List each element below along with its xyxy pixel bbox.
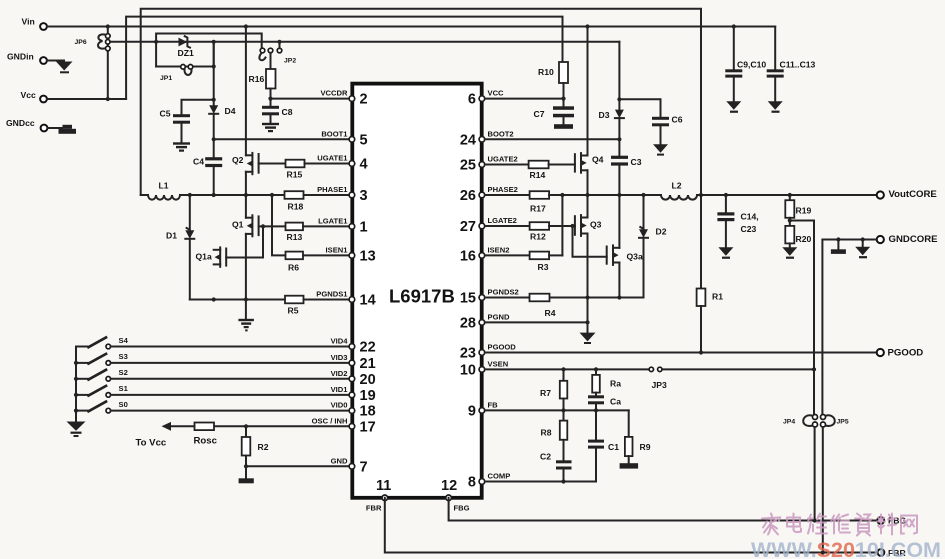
svg-text:L2: L2	[672, 181, 682, 191]
svg-text:24: 24	[460, 132, 476, 148]
terminal Vcc	[21, 90, 47, 102]
pin 20 VID2	[331, 369, 376, 388]
svg-text:7: 7	[360, 459, 368, 475]
svg-text:S2: S2	[119, 368, 128, 377]
svg-text:COMP: COMP	[488, 472, 511, 481]
wire phase1 to R6	[272, 195, 286, 255]
ground GNDCORE tri	[855, 240, 870, 259]
jumper JP5	[821, 415, 849, 428]
svg-text:DZ1: DZ1	[178, 48, 194, 58]
resistor Ra	[592, 369, 621, 395]
junction Vout/R1	[699, 193, 703, 197]
diode D4	[209, 105, 236, 116]
junction phase1/Q2	[244, 193, 248, 197]
svg-text:R5: R5	[288, 306, 299, 316]
junction BOOT2 node	[617, 137, 621, 141]
pin 13 ISEN1	[326, 245, 376, 264]
svg-text:PGNDS2: PGNDS2	[488, 288, 519, 297]
wire PGOOD	[485, 352, 877, 354]
svg-text:C3: C3	[631, 157, 642, 167]
junction FB/Ca/C1	[594, 408, 598, 412]
resistor R3	[485, 252, 563, 272]
pin 4 UGATE1	[317, 154, 367, 173]
ground GNDin	[56, 62, 73, 74]
capacitor Ca	[588, 395, 621, 439]
pin 5 BOOT1	[321, 129, 367, 148]
wire Vout top bus	[141, 9, 701, 289]
junction DZ1 loop bottom	[212, 64, 216, 68]
resistor R9	[625, 410, 651, 463]
svg-text:8: 8	[468, 475, 476, 491]
resistor Rosc	[168, 423, 246, 447]
capacitor C14,C23	[717, 195, 758, 247]
junction R19/R20/JP4	[788, 218, 792, 222]
svg-text:VID3: VID3	[331, 353, 348, 362]
svg-text:GND: GND	[331, 456, 348, 465]
wire VID1	[111, 394, 349, 396]
transistor Q3	[575, 195, 602, 322]
svg-text:5: 5	[360, 132, 368, 148]
svg-text:C1: C1	[608, 442, 619, 452]
svg-text:C4: C4	[193, 157, 204, 167]
junction D3/C6 node	[617, 97, 621, 101]
svg-text:WWW.S2010I.COM: WWW.S2010I.COM	[751, 539, 941, 559]
svg-text:22: 22	[360, 340, 376, 356]
svg-text:Q3: Q3	[590, 220, 602, 230]
transistor Q1a	[196, 247, 227, 266]
switch S4	[76, 336, 129, 349]
wire GND pin7	[246, 465, 349, 467]
svg-text:R8: R8	[541, 428, 552, 438]
ground C7	[554, 124, 573, 129]
svg-text:C23: C23	[741, 224, 757, 234]
capacitor C2	[540, 452, 572, 482]
svg-text:VID2: VID2	[331, 369, 348, 378]
junction C5 tap	[212, 98, 216, 102]
wire DZ1 bypass loop	[156, 34, 262, 67]
resistor R5	[285, 296, 349, 316]
junction switch bus S3	[74, 361, 78, 365]
junction Vout/C14	[724, 193, 728, 197]
svg-text:C14,: C14,	[741, 212, 759, 222]
svg-text:Vin: Vin	[22, 17, 35, 27]
svg-text:UGATE2: UGATE2	[488, 155, 518, 164]
svg-text:R20: R20	[796, 234, 812, 244]
pin 14 PGNDS1	[316, 290, 375, 309]
resistor R15	[259, 160, 349, 180]
svg-text:To Vcc: To Vcc	[136, 438, 167, 449]
resistor R6	[286, 252, 350, 273]
capacitor C8	[262, 99, 293, 123]
wire switch common bus	[75, 347, 77, 422]
svg-text:ISEN1: ISEN1	[326, 245, 349, 254]
svg-text:C11..C13: C11..C13	[780, 60, 816, 70]
transistor Q3a	[607, 195, 643, 298]
ground R9	[620, 463, 639, 468]
svg-text:10: 10	[460, 362, 476, 378]
wire VoutCORE rail	[697, 194, 876, 196]
pin 21 VID3	[331, 353, 376, 372]
svg-text:16: 16	[460, 248, 476, 264]
wire GNDcc	[48, 127, 63, 129]
svg-text:PHASE1: PHASE1	[317, 185, 348, 194]
junction FBR/JP5	[821, 550, 825, 554]
pin 8 COMP	[468, 472, 510, 491]
wire phase1 node	[180, 194, 285, 196]
junction GND node	[244, 464, 248, 468]
terminal GNDin	[7, 52, 47, 64]
svg-text:1: 1	[360, 219, 368, 235]
pin 18 VID0	[331, 401, 376, 420]
svg-text:28: 28	[460, 315, 476, 331]
switch S0	[76, 400, 128, 413]
ground R20	[782, 247, 797, 259]
svg-text:20: 20	[360, 372, 376, 388]
pin 1 LGATE1	[318, 216, 367, 235]
diode D3	[599, 110, 624, 156]
wire Vin rail	[47, 26, 775, 28]
svg-text:LGATE2: LGATE2	[488, 216, 517, 225]
svg-text:PGOOD: PGOOD	[488, 343, 517, 352]
pin 25 UGATE2	[460, 155, 518, 174]
junction GNDCORE bar	[836, 237, 840, 241]
pin 23 PGOOD	[460, 343, 516, 362]
wire OSC/INH	[246, 425, 349, 427]
resistor R17	[485, 191, 549, 213]
transistor Q4	[575, 27, 604, 196]
svg-text:Rosc: Rosc	[194, 436, 218, 447]
resistor R4	[485, 294, 556, 318]
wire BOOT1	[214, 138, 349, 140]
svg-text:VSEN: VSEN	[488, 359, 509, 368]
wire GNDin	[47, 61, 64, 62]
svg-text:VoutCORE: VoutCORE	[889, 189, 938, 200]
svg-text:R7: R7	[540, 388, 551, 398]
jumper JP4	[783, 415, 818, 428]
junction phase1/C4	[212, 193, 216, 197]
wire VCCDR	[271, 98, 350, 100]
svg-text:C2: C2	[540, 452, 551, 462]
diode D2	[639, 195, 667, 298]
resistor R7	[540, 369, 567, 410]
jumper JP2	[259, 42, 296, 65]
svg-text:C8: C8	[282, 107, 293, 117]
svg-text:Q1a: Q1a	[196, 252, 212, 262]
svg-text:VCC: VCC	[488, 89, 505, 98]
resistor R16	[249, 53, 276, 99]
junction phase2/Q4Q3	[585, 193, 589, 197]
ground C9,C10	[726, 101, 741, 112]
svg-text:12: 12	[441, 478, 457, 494]
junction OSC/R2	[244, 424, 248, 428]
svg-text:PGND: PGND	[488, 312, 510, 321]
svg-text:GNDin: GNDin	[7, 52, 34, 62]
pin 16 ISEN2	[460, 245, 510, 264]
wire Q1a gate link	[226, 226, 263, 257]
pin 28 PGND	[460, 312, 510, 331]
svg-text:Vcc: Vcc	[21, 90, 37, 100]
wire PGNDS2 net	[550, 297, 644, 299]
wire VCC pin6	[485, 98, 564, 100]
svg-text:R6: R6	[288, 263, 299, 273]
svg-text:R16: R16	[249, 74, 265, 84]
junction VCCDR node	[268, 97, 272, 101]
svg-text:17: 17	[360, 419, 376, 435]
junction switch bus S0	[74, 409, 78, 413]
svg-text:C7: C7	[534, 109, 545, 119]
capacitor C7	[534, 99, 575, 125]
svg-text:15: 15	[460, 291, 476, 307]
wire GNDCORE	[822, 240, 876, 415]
svg-text:27: 27	[460, 219, 476, 235]
ground GNDcc	[59, 125, 77, 134]
junction Vin/C9C10	[732, 24, 736, 28]
junction phase1/R6	[270, 193, 274, 197]
junction FBG/JP4	[813, 518, 817, 522]
terminal PGOOD	[877, 348, 924, 359]
svg-text:S4: S4	[119, 336, 129, 345]
pin 22 VID4	[331, 337, 376, 356]
ground GNDCORE bar	[831, 240, 846, 254]
svg-text:PGOOD: PGOOD	[888, 348, 924, 359]
junction JP2 right pin node	[277, 40, 281, 44]
svg-text:VCCDR: VCCDR	[320, 89, 348, 98]
svg-text:D4: D4	[225, 106, 236, 116]
capacitor C11..C13	[767, 27, 816, 102]
svg-text:2: 2	[360, 92, 368, 108]
svg-text:BOOT1: BOOT1	[321, 129, 348, 138]
resistor R12	[485, 222, 575, 241]
junction BOOT1 node	[212, 137, 216, 141]
terminal GNDcc	[6, 118, 47, 131]
svg-text:9: 9	[468, 403, 476, 419]
svg-text:LGATE1: LGATE1	[318, 216, 348, 225]
ground power stage 1	[238, 300, 254, 332]
transistor Q1	[232, 195, 259, 300]
zener DZ1	[178, 36, 194, 58]
wire VID2	[111, 378, 349, 380]
junction VSEN/R7	[561, 367, 565, 371]
wire JP5 to FBR	[822, 427, 824, 552]
ground C11..C13	[768, 101, 783, 112]
svg-text:VID1: VID1	[331, 385, 349, 394]
resistor R10	[538, 62, 568, 99]
junction Vcc/JP6	[106, 97, 110, 101]
junction DZ1 left node	[154, 40, 158, 44]
svg-text:GNDcc: GNDcc	[6, 118, 35, 128]
svg-text:Q1: Q1	[232, 220, 244, 230]
junction Vin/Q2 drain	[244, 24, 248, 28]
junction VCC/R10/C7	[561, 97, 565, 101]
wire VID4	[111, 346, 349, 348]
svg-text:R4: R4	[545, 308, 556, 318]
svg-text:26: 26	[460, 188, 476, 204]
svg-text:S0: S0	[119, 400, 128, 409]
junction phase1/D1	[188, 193, 192, 197]
pin 11 FBR	[366, 478, 391, 513]
pin 7 GND	[331, 456, 368, 475]
svg-text:11: 11	[376, 478, 391, 494]
wire COMP	[485, 481, 596, 483]
switch S1	[76, 384, 129, 397]
wire Vcc	[47, 98, 126, 100]
terminal Vin	[22, 17, 47, 30]
svg-text:FBG: FBG	[454, 504, 470, 513]
terminal VoutCORE	[877, 189, 938, 200]
svg-text:23: 23	[460, 346, 476, 362]
pin 9 FB	[468, 400, 498, 419]
svg-text:R9: R9	[640, 442, 651, 452]
resistor R13	[259, 223, 349, 242]
wire VSEN	[485, 368, 649, 370]
svg-text:C6: C6	[672, 115, 683, 125]
junction Q3 gate / Q3a gate	[570, 224, 574, 228]
svg-text:25: 25	[460, 158, 476, 174]
svg-text:4: 4	[360, 157, 368, 173]
pin 24 BOOT2	[460, 129, 514, 148]
junction Q1 gate / Q1a gate	[261, 224, 265, 228]
resistor R19	[785, 195, 811, 226]
svg-text:19: 19	[360, 388, 376, 404]
svg-text:L1: L1	[159, 181, 169, 191]
svg-text:R12: R12	[530, 232, 546, 242]
svg-text:D1: D1	[166, 231, 177, 241]
svg-text:ISEN2: ISEN2	[488, 245, 510, 254]
svg-text:Ca: Ca	[610, 397, 621, 407]
svg-text:14: 14	[360, 293, 376, 309]
wire R3 to phase2	[561, 195, 563, 255]
svg-text:D3: D3	[599, 110, 610, 120]
junction phase2/C3	[617, 193, 621, 197]
svg-text:OSC / INH: OSC / INH	[312, 416, 348, 425]
junction Vin/JP6	[106, 24, 110, 28]
svg-text:13: 13	[360, 248, 376, 264]
op-amp U1 L6917B IC body	[352, 84, 481, 498]
svg-text:PHASE2: PHASE2	[488, 185, 518, 194]
pin 26 PHASE2	[460, 185, 518, 204]
ground C5	[173, 142, 190, 151]
jumper JP6	[75, 27, 111, 100]
junction Vout/R19	[788, 193, 792, 197]
capacitor C1	[588, 440, 619, 482]
junction FB/R7/R8	[561, 408, 565, 412]
svg-text:R14: R14	[530, 170, 546, 180]
pin 19 VID1	[331, 385, 376, 404]
junction PGNDS2/Q3a	[617, 295, 621, 299]
transistor Q2	[232, 27, 259, 196]
resistor R8	[541, 410, 568, 460]
junction VSEN/JP4	[812, 367, 816, 371]
svg-text:S3: S3	[119, 352, 128, 361]
terminal FBG	[877, 516, 906, 526]
junction DZ1 right node	[212, 40, 216, 44]
svg-text:FB: FB	[488, 400, 499, 409]
svg-text:JP5: JP5	[837, 419, 849, 426]
inductor L1	[141, 181, 180, 200]
wire FB	[485, 409, 629, 411]
junction phase2/R3	[560, 193, 564, 197]
svg-text:VID4: VID4	[331, 337, 349, 346]
svg-text:BOOT2: BOOT2	[488, 129, 514, 138]
pin 10 VSEN	[460, 359, 508, 378]
svg-text:GNDCORE: GNDCORE	[889, 234, 939, 245]
svg-text:JP2: JP2	[284, 58, 296, 65]
svg-text:JP6: JP6	[75, 39, 87, 46]
svg-text:JP4: JP4	[783, 419, 795, 426]
wire JP4 to FBG	[814, 427, 816, 520]
capacitor C3	[611, 156, 642, 195]
capacitor C5	[160, 100, 214, 143]
wire FBG	[449, 498, 877, 521]
arrow To Vcc	[136, 422, 172, 449]
svg-text:R17: R17	[530, 204, 546, 214]
pin 27 LGATE2	[460, 216, 517, 235]
pin 2 VCCDR	[320, 89, 367, 108]
wire Vcc-select net	[110, 41, 619, 43]
junction PGNDS1/Q1a	[212, 297, 216, 301]
diode D1	[166, 195, 194, 300]
wire Vcc-select to D3 node	[618, 42, 620, 110]
junction VSEN/Ra	[594, 367, 598, 371]
pin 15 PGNDS2	[460, 288, 519, 307]
junction COMP/C2	[561, 479, 565, 483]
svg-text:21: 21	[360, 356, 376, 372]
capacitor C9,C10	[725, 27, 766, 102]
wire phase2 node	[549, 194, 661, 196]
wire FBR	[385, 498, 878, 553]
svg-text:L6917B: L6917B	[389, 286, 455, 307]
pin 3 PHASE1	[317, 185, 367, 204]
svg-text:R2: R2	[258, 442, 269, 452]
svg-text:3: 3	[360, 188, 368, 204]
svg-text:C5: C5	[160, 109, 171, 119]
svg-text:S1: S1	[119, 384, 129, 393]
wire VSEN to JP4 column	[662, 368, 814, 370]
junction Vin/Q4 drain	[585, 24, 589, 28]
resistor R18	[285, 191, 350, 211]
svg-text:UGATE1: UGATE1	[317, 154, 348, 163]
wire D4 to BOOT1 node	[213, 114, 215, 157]
ground PGND	[580, 322, 596, 344]
wire Vcc top bus	[126, 17, 562, 99]
svg-text:FBR: FBR	[366, 504, 382, 513]
svg-text:PGNDS1: PGNDS1	[316, 290, 348, 299]
svg-text:Q2: Q2	[232, 155, 244, 165]
svg-text:Q3a: Q3a	[627, 252, 643, 262]
svg-text:R19: R19	[796, 206, 812, 216]
resistor R20	[785, 226, 811, 247]
pin 17 OSC / INH	[312, 416, 376, 435]
svg-text:6: 6	[468, 92, 476, 108]
inductor L2	[661, 181, 697, 200]
svg-text:R10: R10	[538, 67, 554, 77]
junction PGNDS2/Q3	[585, 295, 589, 299]
ground switches	[67, 422, 86, 438]
junction GNDCORE tri	[861, 237, 865, 241]
junction PGND/Q3	[585, 320, 589, 324]
svg-text:18: 18	[360, 404, 376, 420]
junction phase2/D2	[641, 193, 645, 197]
wire BOOT2	[485, 138, 620, 140]
wire PGND	[485, 321, 588, 323]
svg-text:Ra: Ra	[610, 379, 621, 389]
svg-text:R13: R13	[287, 232, 303, 242]
svg-text:D2: D2	[656, 227, 667, 237]
terminal FBR	[878, 548, 907, 558]
switch S2	[76, 368, 128, 381]
ground C14,C23	[718, 247, 733, 259]
svg-text:JP3: JP3	[652, 380, 668, 390]
